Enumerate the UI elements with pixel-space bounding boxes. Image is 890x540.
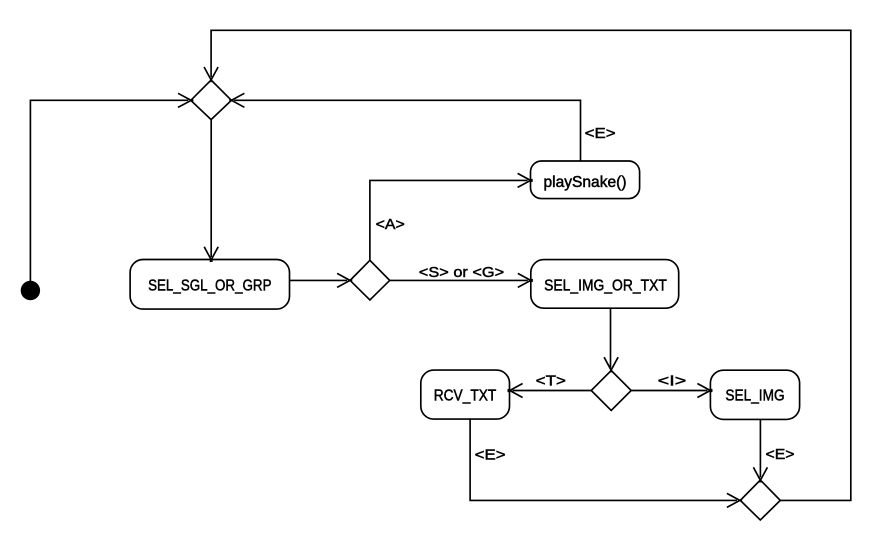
wire D1 bottom to SEL_SGL_OR_GRP <box>210 120 212 257</box>
svg-text:<E>: <E> <box>766 447 795 463</box>
decision D1 (top merge diamond) <box>191 80 232 120</box>
decision D2 (branch on A / S / G) <box>350 260 390 300</box>
wire SEL_SGL_OR_GRP right to decision D2 <box>290 279 348 281</box>
svg-text:SEL_SGL_OR_GRP: SEL_SGL_OR_GRP <box>148 277 271 294</box>
arrowhead into D1 right vertex <box>229 93 244 107</box>
arrowhead into D2 left vertex <box>337 273 352 287</box>
arrowhead into RCV_TXT right edge <box>508 384 523 398</box>
arrowhead into D4 left vertex <box>727 493 742 507</box>
wire D3 left to RCV_TXT <box>512 390 591 392</box>
svg-text:<E>: <E> <box>585 126 616 142</box>
svg-text:<S> or <G>: <S> or <G> <box>419 265 504 281</box>
svg-text:<A>: <A> <box>376 217 405 233</box>
wire SEL_IMG_OR_TXT bottom down to decision D3 <box>610 308 612 367</box>
svg-text:<T>: <T> <box>536 374 566 390</box>
svg-text:<I>: <I> <box>658 374 687 390</box>
arrowhead into SEL_IMG left edge <box>697 384 712 398</box>
arrowhead into D1 top vertex <box>204 67 218 82</box>
svg-text:playSnake(): playSnake() <box>544 174 627 191</box>
arrowhead into SEL_SGL_OR_GRP top <box>204 247 218 262</box>
state playSnake() <box>531 161 640 199</box>
arrowhead into D4 top vertex <box>753 467 767 482</box>
wire D3 right to SEL_IMG <box>631 390 707 392</box>
wire D2 top up and right to playSnake() <box>370 180 528 260</box>
arrowhead into D3 top vertex <box>604 357 618 372</box>
arrowhead into D1 left vertex <box>178 93 193 107</box>
svg-text:RCV_TXT: RCV_TXT <box>434 387 497 404</box>
state SEL_IMG <box>710 370 799 419</box>
wire from initial node up and right to decision D1 <box>30 100 188 281</box>
wire D2 right to SEL_IMG_OR_TXT <box>390 279 528 281</box>
svg-text:SEL_IMG_OR_TXT: SEL_IMG_OR_TXT <box>544 277 667 294</box>
arrowhead into SEL_IMG_OR_TXT left edge <box>518 273 533 287</box>
state SEL_SGL_OR_GRP <box>130 260 289 310</box>
state RCV_TXT <box>421 370 510 419</box>
decision D4 (bottom merge diamond) <box>740 480 780 520</box>
initial state node <box>21 281 40 300</box>
decision D3 (branch on T / I) <box>591 371 631 411</box>
state SEL_IMG_OR_TXT <box>531 260 679 309</box>
wire RCV_TXT bottom down and right to D4 left vertex <box>470 419 737 500</box>
svg-text:<E>: <E> <box>475 448 506 464</box>
wire playSnake top up and left to D1 right vertex <box>234 100 580 161</box>
arrowhead into playSnake left edge <box>518 173 533 187</box>
wire loopback from D4 right, up right rail, across top, down into D1 top <box>211 30 851 500</box>
wire SEL_IMG bottom down to D4 top vertex <box>759 419 761 477</box>
svg-text:SEL_IMG: SEL_IMG <box>725 387 784 404</box>
